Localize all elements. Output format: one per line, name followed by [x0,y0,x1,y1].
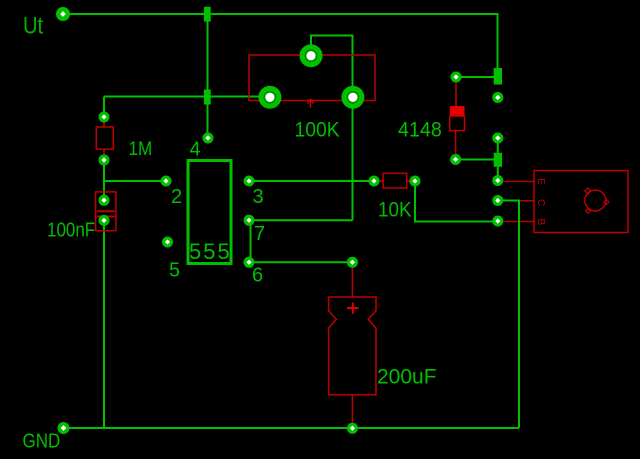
capacitor C1 100nF silkscreen [96,192,116,231]
wire down to resistor R1 top pad [103,97,105,118]
label pin 6 [252,265,263,287]
pad 10K right [410,176,421,187]
diode D1 4148 silkscreen [450,82,465,155]
junction square top rail [204,7,211,22]
svg-text:200uF: 200uF [377,365,437,388]
label 555 [189,239,232,264]
resistor R2 10K silkscreen [374,173,415,188]
pad pot top big [300,44,323,67]
label 100K [295,119,341,142]
wire pin 3 to 10K left pad [249,180,374,182]
wire pad chain J4 to emitter pad [497,138,499,181]
pad pot left big [258,86,281,109]
wire C1 bottom pad down to GND rail [103,220,105,428]
svg-text:555: 555 [189,239,232,264]
label pin 2 [171,186,182,208]
label 4148 [398,119,442,142]
label 200uF [377,365,437,388]
svg-text:100K: 100K [295,119,341,142]
label 10K [378,199,412,222]
svg-text:6: 6 [252,265,263,287]
wire diode bottom pad to node J4 [456,159,494,161]
pad spare below J3 [492,92,503,103]
label pin 5 [169,260,180,282]
pad R1 bottom [99,155,110,166]
svg-text:100nF: 100nF [47,218,95,241]
junction square J3 top right [494,68,502,85]
pad C2 top [347,257,358,268]
label GND [23,429,61,452]
wire node row y96 to pot left pad [104,96,270,98]
svg-text:1M: 1M [129,138,153,159]
pad pin 7 [244,215,255,226]
junction square node y96 [204,90,211,105]
svg-text:2: 2 [171,186,182,208]
pin label B [535,219,546,226]
potentiometer P1 100K silkscreen [249,55,375,108]
pin label C [535,199,546,206]
pad GND [58,422,70,434]
svg-text:4: 4 [190,138,201,160]
label pin 4 [190,138,201,160]
label 1M [129,138,153,159]
wire 10K right pad to base pad [415,181,498,222]
transistor lead lines E C B [504,182,535,222]
pad pin 5 [162,237,173,248]
wire pin 7 to pot drop [249,219,353,221]
svg-text:5: 5 [169,260,180,282]
wire R1 bottom pad to C1 top pad [103,160,105,200]
svg-text:4148: 4148 [398,119,442,142]
pad Ut [56,7,70,21]
pad pot right big [341,86,364,109]
wire pin 7 to pin 6 [250,220,252,262]
pad R1 top [99,112,110,123]
label pin 3 [253,186,264,208]
svg-text:B: B [535,219,546,226]
wire GND bottom rail [63,427,519,429]
pad C1 top [99,195,110,206]
pad pin 4 [203,133,214,144]
svg-text:C: C [535,199,546,206]
pad 10K left [369,176,380,187]
svg-text:E: E [535,178,546,185]
capacitor C2 200uF silkscreen [329,268,376,423]
svg-text:3: 3 [253,186,264,208]
svg-text:7: 7 [254,223,265,245]
pad C1 bottom [99,215,110,226]
label Ut [23,12,43,39]
wire right riser from collector wire down to GND rail [498,201,519,429]
pad pin 6 [244,257,255,268]
wire pin 6 to C2 top pad [249,261,353,263]
pad diode top [451,72,462,83]
wire diode top pad to node J3 [456,76,497,78]
label pin 7 [254,223,265,245]
wire +V top rail from Ut pad to right drop [63,14,498,70]
junction square J4 [494,153,502,167]
wire vertical from top rail to node row y96 [207,14,209,97]
transistor can symbol [585,188,609,214]
IC U1 555 outline [188,161,231,264]
svg-text:GND: GND [23,429,61,452]
pad C2 bottom [347,423,358,434]
pad above J4 [492,133,503,144]
transistor Q1 silkscreen box [534,171,628,233]
label 100nF [47,218,95,241]
pad pin 3 [244,176,255,187]
svg-text:10K: 10K [378,199,412,222]
pad collector [492,195,503,206]
resistor R1 1M silkscreen [96,120,113,156]
pad pin 2 [161,176,172,187]
pad emitter [492,175,503,186]
wire to pin 2 pad [104,180,166,182]
wire junction y96 down continue to pin 4 pad [207,97,209,138]
wire pot wiper loop and drop to pin7 wire [311,36,353,221]
pad diode bottom [450,154,461,165]
svg-text:Ut: Ut [23,12,43,39]
pad base [492,216,503,227]
pin label E [535,178,546,185]
